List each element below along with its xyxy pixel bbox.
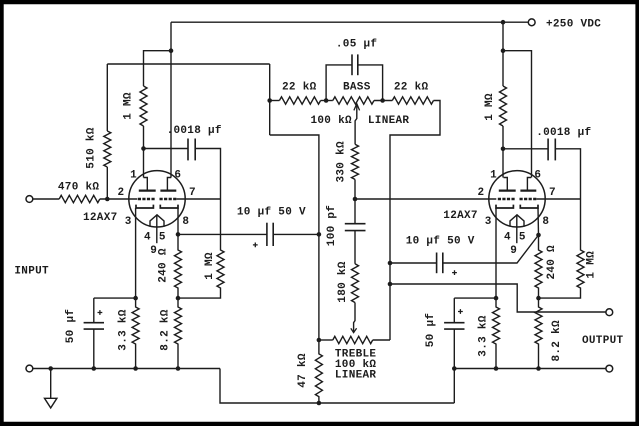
capacitor .0018 uF V1: [187, 139, 189, 161]
capacitor 10 uF 50 V (stage 1): [266, 223, 268, 246]
svg-text:4: 4: [504, 232, 511, 244]
wire mid node to grid of V2: [355, 198, 496, 200]
wire pin 8 cathode V2: [537, 208, 540, 235]
wire cathode to 10uF coupling cap: [178, 233, 267, 235]
svg-text:10 µf 50 V: 10 µf 50 V: [406, 236, 475, 248]
junction grid node V1: [105, 197, 110, 202]
tube V1 heater filament: [150, 215, 164, 227]
wire B+ drop V2: [502, 22, 504, 86]
wire 22k right step down to network right rail: [390, 101, 440, 341]
svg-text:10 µf 50 V: 10 µf 50 V: [237, 206, 306, 218]
svg-text:22 kΩ: 22 kΩ: [282, 81, 317, 93]
svg-text:6: 6: [174, 169, 181, 181]
resistor 22 k-ohm (left): [279, 97, 320, 104]
junction B+ jog node V1: [169, 48, 174, 53]
wire jog to 1 Mohm plate load V1: [144, 51, 172, 86]
svg-text:9: 9: [510, 245, 517, 257]
resistor 330 k-ohm: [352, 144, 359, 179]
wire network left rail: [270, 135, 319, 340]
svg-text:3.3 kΩ: 3.3 kΩ: [118, 309, 130, 351]
wire +250V top rail: [171, 21, 528, 23]
tube V1 cathode (pin 3): [136, 205, 153, 208]
wire cathode node to 50uF bypass V2: [454, 297, 496, 299]
wire 330k bottom to mid node: [354, 179, 356, 199]
resistor 470 k-ohm grid stopper: [59, 195, 100, 202]
resistor 8.2 k-ohm V1: [175, 298, 182, 368]
wire pin 8 cathode follower out V1: [177, 208, 179, 234]
polarity + of 10 uF (stage 1): [253, 243, 258, 248]
svg-text:1 MΩ: 1 MΩ: [204, 252, 216, 280]
polarity + of 10 uF (stage 2): [452, 270, 457, 275]
junction 8.2k ground V1: [176, 366, 181, 371]
svg-text:100 pf: 100 pf: [326, 205, 338, 247]
resistor 1 M-ohm plate load V1: [140, 86, 147, 126]
svg-text:+250 VDC: +250 VDC: [546, 19, 601, 31]
junction network right rail / output tap: [388, 282, 393, 287]
junction 3.3k ground V1: [133, 366, 138, 371]
svg-text:1 MΩ: 1 MΩ: [123, 92, 135, 120]
svg-text:12AX7: 12AX7: [83, 212, 118, 224]
tube V1 grid (pin 2) dashes: [138, 198, 155, 200]
junction 50uF lead / ground bus V2: [452, 366, 457, 371]
wire ground bus stage 2: [454, 368, 606, 370]
svg-text:7: 7: [549, 187, 556, 199]
wire network left drop from feed: [269, 64, 271, 135]
wire plate node to .0018 cap V2: [503, 148, 548, 150]
resistor 1 M-ohm grid V1b: [178, 199, 224, 298]
junction 240/8.2k node V2: [536, 296, 541, 301]
wire treble pot right lead: [373, 339, 390, 341]
junction bass pot right / .05 cap: [380, 98, 385, 103]
wire pin 3 cathode to 3.3k V2: [495, 208, 497, 298]
svg-text:1 MΩ: 1 MΩ: [585, 251, 597, 279]
capacitor 50 uF bypass V2: [453, 298, 455, 323]
wire 10uF to network right rail: [390, 262, 437, 264]
svg-text:4: 4: [144, 232, 151, 244]
junction plate node V1 (pin 1): [141, 146, 146, 151]
svg-text:5: 5: [159, 232, 166, 244]
junction plate node V2 (pin 1): [501, 147, 506, 152]
capacitor 10 uF 50 V (stage 2): [436, 253, 438, 274]
treble pot wiper arrow: [354, 303, 355, 333]
wire bottom ground rail (left): [33, 368, 220, 370]
svg-text:OUTPUT: OUTPUT: [582, 335, 624, 347]
resistor 8.2 k-ohm V2: [535, 298, 542, 368]
capacitor .0018 uF V2: [547, 139, 549, 161]
svg-text:100 kΩ: 100 kΩ: [311, 115, 353, 127]
svg-text:47 kΩ: 47 kΩ: [297, 353, 309, 388]
wire diagonal cathode to 10uF V2: [443, 235, 539, 263]
wire 10uF to tone network left rail: [273, 233, 319, 235]
tube V2 cathode (pin 8): [520, 205, 538, 208]
tube V2 grid (pin 7) dashes: [520, 198, 537, 200]
tube V2 plate (pin 1) bar and lead jog: [504, 178, 508, 191]
svg-text:LINEAR: LINEAR: [368, 115, 410, 127]
terminal input ground: [26, 365, 33, 372]
svg-text:1: 1: [490, 169, 497, 181]
potentiometer TREBLE 100k body: [333, 336, 373, 343]
svg-text:3: 3: [125, 216, 132, 228]
svg-text:510 kΩ: 510 kΩ: [85, 127, 97, 169]
wire output tap to upper OUTPUT terminal: [390, 284, 606, 312]
junction bass pot left / .05 cap: [324, 98, 329, 103]
wire 1 Mohm bottom to plate node V1: [143, 126, 145, 149]
junction tone mid node: [353, 197, 358, 202]
junction 3.3k ground V2: [494, 366, 499, 371]
tube V2 heater filament: [510, 215, 524, 227]
svg-text:470 kΩ: 470 kΩ: [58, 181, 100, 193]
capacitor 50 uF bypass V1: [93, 298, 95, 323]
junction B+ jog node V2: [501, 48, 506, 53]
svg-text:5: 5: [519, 232, 526, 244]
svg-text:240 Ω: 240 Ω: [546, 245, 558, 280]
svg-text:6: 6: [534, 169, 541, 181]
svg-text:3.3 kΩ: 3.3 kΩ: [478, 315, 490, 357]
junction cathode node V2b: [536, 233, 541, 238]
junction network right rail / 10uF: [388, 261, 393, 266]
svg-text:3: 3: [485, 216, 492, 228]
tube V1 plate (pin 6) bar and lead jog: [167, 178, 171, 191]
tube V2 12AX7 envelope: [489, 171, 545, 227]
junction 50uF ground V1: [92, 366, 97, 371]
tube V2 grid (pin 2) dashes: [498, 198, 515, 200]
wire 1 Mohm bottom to plate node V2: [502, 126, 504, 149]
potentiometer BASS 100k body: [333, 97, 374, 104]
svg-text:50 µf: 50 µf: [425, 313, 437, 348]
svg-text:8: 8: [182, 216, 189, 228]
svg-text:INPUT: INPUT: [14, 265, 49, 277]
tube V1 12AX7 envelope: [129, 171, 185, 227]
junction 47k to ground rail: [317, 401, 322, 406]
wire 510k top lead: [106, 64, 108, 131]
tube V2 pin 9 lead: [516, 215, 518, 243]
wire plate node to pin 1 of V1: [143, 149, 145, 178]
junction cathode node V1b: [176, 232, 181, 237]
wire pin 7 grid lead V2: [537, 198, 581, 200]
resistor 510 k-ohm: [104, 131, 111, 167]
tube V1 cathode (pin 8): [160, 205, 178, 208]
wire B+ drop to pin 6 of V1: [170, 22, 172, 177]
svg-text:1 MΩ: 1 MΩ: [484, 93, 496, 121]
junction treble left / network left rail: [317, 338, 322, 343]
polarity + of 50 uF V2: [458, 309, 463, 314]
junction tone network left rail / 10uF: [317, 232, 322, 237]
svg-text:.0018 µf: .0018 µf: [536, 127, 591, 139]
wire treble pot left lead: [319, 339, 333, 341]
svg-text:50 µf: 50 µf: [65, 309, 77, 344]
resistor 1 M-ohm grid V2b: [539, 199, 585, 298]
svg-text:180 kΩ: 180 kΩ: [337, 261, 349, 303]
svg-text:BASS: BASS: [343, 81, 371, 93]
wire 510k bottom to grid node V1: [106, 167, 108, 199]
junction 240/8.2k node V1: [176, 296, 181, 301]
svg-text:8.2 kΩ: 8.2 kΩ: [159, 309, 171, 351]
wire .05 cap right leg: [358, 65, 383, 101]
wire ground stem: [50, 369, 52, 399]
svg-text:8.2 kΩ: 8.2 kΩ: [551, 320, 563, 362]
svg-text:.0018 µf: .0018 µf: [167, 125, 222, 137]
svg-text:.05 µf: .05 µf: [336, 39, 378, 51]
wire pin 7 grid lead V1: [177, 198, 221, 200]
terminal OUTPUT lower (ground): [606, 365, 613, 372]
junction cathode/3.3k node V2: [494, 296, 499, 301]
resistor 1 M-ohm plate load V2: [500, 86, 507, 126]
tube V1 plate (pin 1) bar and lead jog: [144, 178, 148, 191]
wire 470k to grid pin 2 of V1: [100, 198, 137, 200]
svg-text:330 kΩ: 330 kΩ: [336, 141, 348, 183]
svg-text:LINEAR: LINEAR: [335, 369, 377, 381]
terminal +250 VDC: [528, 19, 535, 26]
wire input to 470k: [33, 198, 59, 200]
wire ground rail step down: [220, 369, 454, 404]
tube V2 plate (pin 6) bar and lead jog: [527, 178, 531, 191]
wire plate node to coupling cap: [144, 148, 189, 150]
svg-text:9: 9: [150, 245, 157, 257]
resistor 22 k-ohm (right): [392, 97, 433, 104]
tube V1 pin 9 lead: [156, 215, 158, 243]
svg-text:2: 2: [118, 187, 125, 199]
junction 8.2k ground V2: [536, 366, 541, 371]
terminal OUTPUT upper: [606, 309, 613, 316]
wire cathode node to 50uF bypass: [94, 297, 136, 299]
resistor 3.3 k-ohm V1: [132, 298, 139, 368]
wire jog to pin 6 of V2: [503, 51, 532, 178]
wire plate node to pin 1 of V2: [502, 149, 504, 178]
wire .05 cap left leg: [326, 65, 352, 101]
junction cathode/3.3k node V1: [133, 296, 138, 301]
bass pot wiper arrow: [355, 104, 357, 145]
resistor 240 ohm V2: [535, 235, 542, 298]
svg-text:22 kΩ: 22 kΩ: [394, 81, 429, 93]
svg-text:12AX7: 12AX7: [443, 210, 478, 222]
wire .0018 cap to grid node of V1b: [195, 149, 220, 200]
wire to bass pot left: [321, 100, 333, 102]
svg-text:7: 7: [189, 187, 196, 199]
resistor 47 k-ohm: [315, 340, 322, 403]
capacitor .05 uF bass: [351, 54, 353, 75]
wire bass right lead: [374, 100, 392, 102]
wire tone network feed from 510k top: [107, 63, 269, 65]
svg-text:240 Ω: 240 Ω: [158, 248, 170, 283]
capacitor 100 pF: [354, 199, 356, 224]
terminal INPUT jack: [26, 196, 33, 203]
polarity + of 50 uF V1: [98, 310, 103, 315]
wire .0018 cap to grid node of V2b: [555, 149, 580, 199]
resistor 3.3 k-ohm V2: [493, 298, 500, 368]
junction 22k left / feed: [267, 98, 272, 103]
ground symbol: [45, 398, 57, 408]
svg-text:8: 8: [542, 216, 549, 228]
wire 22k left lead: [270, 100, 280, 102]
tube V1 grid (pin 7) dashes: [160, 198, 177, 200]
svg-text:2: 2: [478, 187, 485, 199]
junction B+ rail / V2 feed: [501, 20, 506, 25]
tube V2 cathode (pin 3): [496, 205, 513, 208]
wire pin 3 cathode to 3.3k V1: [135, 208, 137, 298]
resistor 180 k-ohm: [352, 264, 359, 303]
junction ground symbol node: [48, 366, 53, 371]
svg-text:1: 1: [130, 169, 137, 181]
resistor 240 ohm V1: [175, 234, 182, 298]
